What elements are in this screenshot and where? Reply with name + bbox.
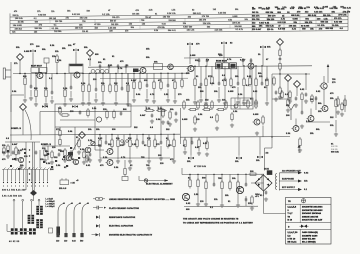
svg-text:2.2k 18k: 2.2k 18k	[215, 29, 223, 31]
svg-text:39k: 39k	[101, 83, 105, 85]
ceramic filter CF1	[216, 63, 237, 69]
svg-text:15k: 15k	[62, 48, 66, 50]
wire rail tie 2	[187, 67, 189, 74]
wire drop resistor R5	[82, 74, 84, 86]
wire drop capacitor C21	[213, 175, 215, 185]
wire R62 chain	[301, 102, 303, 113]
svg-text:470: 470	[125, 29, 128, 32]
svg-text:100 22k: 100 22k	[289, 25, 297, 27]
resistor R20	[266, 77, 268, 88]
resistor Rb1	[139, 80, 141, 91]
wire tie mid2	[160, 106, 162, 134]
svg-text:91: 91	[287, 12, 289, 14]
capacitor Cb2	[242, 59, 245, 63]
svg-text:270: 270	[332, 82, 336, 84]
svg-text:47: 47	[73, 43, 75, 46]
ground under Q15	[86, 156, 90, 160]
svg-text:2SB405 2SC735: 2SB405 2SC735	[302, 215, 318, 218]
resistor R24	[299, 137, 301, 148]
wire drop resistor R19	[255, 66, 257, 79]
capacitor C11	[305, 92, 308, 96]
resistor R71	[64, 148, 66, 158]
ground under capacitor C3	[69, 97, 73, 101]
wire left tie	[10, 95, 12, 112]
wire comb bus	[2, 169, 48, 171]
svg-text:33k 750: 33k 750	[252, 19, 260, 21]
svg-text:0.01: 0.01	[228, 19, 232, 21]
svg-text:120: 120	[64, 241, 67, 243]
chassis ground blob	[30, 190, 37, 196]
svg-text:1.5k: 1.5k	[172, 10, 176, 12]
svg-text:330: 330	[128, 138, 132, 140]
resistor R72	[83, 150, 85, 160]
ground am2-6	[173, 99, 177, 103]
svg-text:1.5k: 1.5k	[233, 111, 238, 113]
svg-text:270: 270	[147, 138, 151, 140]
resistor R49e	[216, 108, 225, 110]
trimmer cap TC1	[30, 50, 36, 53]
svg-text:680 33k: 680 33k	[266, 12, 274, 14]
svg-text:100: 100	[36, 46, 40, 48]
svg-text:6.8: 6.8	[222, 75, 225, 77]
resistor R42	[148, 138, 150, 149]
wire drop am2-4	[160, 73, 162, 82]
svg-text:12k 1.5k: 12k 1.5k	[187, 30, 195, 32]
wire drop capacitor C1	[30, 74, 32, 87]
wire drop resistor R16	[230, 66, 232, 79]
transistor symbol in table header	[301, 199, 305, 203]
ground under resistor R39	[116, 159, 120, 163]
transistor Q10 FM rf	[17, 157, 24, 162]
resistor R18	[249, 76, 251, 87]
wire drop resistor R59	[229, 175, 231, 183]
svg-text:47 220 5.6k: 47 220 5.6k	[194, 166, 206, 168]
wire resistor R9 to gnd	[115, 94, 117, 102]
legend symbol resistance capacitor	[96, 215, 100, 218]
svg-text:120: 120	[56, 241, 59, 243]
junction rail b13	[173, 134, 174, 135]
svg-text:680: 680	[23, 76, 27, 78]
svg-text:82: 82	[230, 43, 232, 45]
svg-text:330 2k2: 330 2k2	[15, 28, 22, 30]
alignment trimmer TC11	[257, 156, 263, 159]
resistor R59	[229, 180, 231, 191]
wire capacitor C4 to gnd	[95, 93, 97, 98]
svg-text:3: 3	[288, 210, 289, 212]
wire drop resistor R10	[127, 74, 129, 86]
svg-text:47: 47	[108, 9, 110, 12]
wire antenna drop	[327, 67, 329, 83]
ground under capacitor C7	[217, 98, 221, 102]
svg-text:18k: 18k	[256, 160, 260, 162]
wire rail tie 3	[251, 66, 253, 106]
oscillator can T1b	[154, 64, 163, 70]
alignment trimmer TC9	[188, 157, 194, 160]
resistor Rc0	[184, 138, 186, 149]
svg-text:560: 560	[202, 178, 206, 180]
wire scm v2	[47, 146, 49, 160]
wire stub if1	[206, 58, 208, 66]
junction rail b3	[102, 73, 103, 74]
svg-text:270: 270	[30, 44, 34, 46]
ground under resistor R57	[204, 202, 208, 206]
resistor R32	[60, 114, 70, 116]
svg-text:560: 560	[80, 241, 83, 243]
junction rail b11	[111, 134, 112, 135]
ground under R53	[205, 152, 209, 156]
svg-text:1.5k: 1.5k	[266, 7, 271, 9]
svg-text:91: 91	[331, 144, 333, 146]
svg-text:0.1: 0.1	[54, 25, 57, 27]
wire capacitor C8 to gnd	[237, 87, 239, 100]
svg-text:1,2,4,7,10: 1,2,4,7,10	[288, 231, 298, 234]
wire drop resistor R40	[129, 135, 131, 140]
wire drop resistor R14	[211, 66, 213, 77]
svg-text:5,6: 5,6	[288, 235, 291, 237]
svg-text:39k: 39k	[146, 57, 150, 59]
ground under capacitor C4	[94, 98, 98, 102]
svg-text:2k2 2.2k: 2k2 2.2k	[343, 8, 352, 10]
coil label box B527a	[31, 68, 39, 73]
ground under resistor R6	[87, 101, 91, 105]
wire drop am2-7	[181, 73, 183, 80]
svg-text:1k2 56k: 1k2 56k	[54, 31, 61, 33]
junction rail 7	[194, 66, 195, 67]
wire coil feed 1	[13, 201, 15, 228]
capacitor Ca2	[117, 65, 120, 69]
ground under R25	[334, 132, 338, 136]
wire output tap 2	[279, 180, 299, 182]
svg-text:33k 270: 33k 270	[305, 22, 313, 24]
svg-text:SD-1 1N60(S): SD-1 1N60(S)	[302, 242, 316, 244]
coil feed terminal 4	[38, 199, 40, 201]
wire TP3 drop	[279, 45, 281, 50]
resistor R40	[129, 138, 131, 149]
wire drop am2-5	[167, 73, 169, 85]
output transformer winding	[275, 173, 279, 191]
svg-text:10k: 10k	[98, 62, 102, 64]
svg-text:8.2k: 8.2k	[81, 83, 86, 85]
svg-text:120 1k: 120 1k	[267, 29, 274, 31]
wire capacitor C7 to gnd	[218, 87, 220, 98]
wire drop capacitor C19	[160, 135, 162, 142]
wire capacitor C2 to gnd	[51, 96, 53, 99]
junction rail b10	[255, 65, 256, 66]
junction rail b4	[121, 73, 122, 74]
svg-text:750: 750	[82, 21, 85, 23]
svg-text:15k: 15k	[129, 24, 132, 26]
svg-text:8 TH 10: 8 TH 10	[288, 238, 296, 240]
wire capacitor C19 to gnd	[160, 146, 162, 156]
wire module mid drop	[74, 127, 76, 150]
ground under capacitor C1	[29, 96, 33, 100]
test point TP3	[277, 39, 284, 46]
wire resistor R3 to gnd	[45, 99, 47, 103]
svg-text:680 5.6k: 680 5.6k	[308, 15, 317, 17]
junction J2	[89, 73, 90, 74]
wire wing drop 2	[238, 137, 240, 156]
svg-text:8.2k 3.3k: 8.2k 3.3k	[167, 13, 175, 15]
wire drop af2-1	[191, 137, 193, 142]
svg-text:330: 330	[70, 111, 74, 113]
svg-text:470: 470	[319, 27, 322, 30]
svg-text:12k: 12k	[259, 76, 263, 78]
resistor R75	[248, 173, 258, 175]
ground mid2	[174, 118, 178, 122]
wire R76 stub	[59, 127, 61, 131]
svg-text:0.02: 0.02	[72, 241, 76, 243]
transistor Q8	[307, 116, 315, 122]
resistor R19	[255, 77, 257, 88]
test point TP2	[87, 50, 94, 57]
wire drop resistor R7	[102, 74, 104, 86]
wire to coil block	[33, 196, 35, 201]
svg-text:27k: 27k	[37, 11, 40, 13]
coil feed terminal 2	[22, 199, 24, 201]
svg-text:6.8: 6.8	[285, 94, 288, 96]
svg-text:33k: 33k	[16, 47, 20, 49]
svg-text:18k: 18k	[187, 161, 191, 163]
transistor Q20	[72, 159, 79, 164]
resistor R13	[205, 77, 207, 88]
svg-text:91: 91	[250, 99, 252, 101]
resistor Rb3	[153, 80, 155, 91]
transistor Q13 AF driver	[106, 149, 114, 155]
svg-text:680: 680	[277, 12, 280, 14]
ground under resistor R12	[193, 100, 197, 104]
svg-text:12k: 12k	[304, 181, 308, 183]
wire resistor R58 to gnd	[221, 191, 223, 204]
wire row in	[7, 230, 11, 232]
ground under R46	[77, 150, 81, 154]
wire tuner stub2	[305, 74, 307, 90]
wire AF supply rail left	[10, 133, 180, 136]
svg-text:560 270: 560 270	[268, 16, 276, 18]
wire TC2 drop	[75, 52, 77, 64]
junction rail b0	[35, 73, 36, 74]
ground scm4	[82, 160, 86, 164]
battery box B1	[60, 180, 69, 185]
dark coupling box	[133, 69, 139, 73]
resistor Rb6	[174, 80, 176, 91]
svg-text:33k: 33k	[188, 16, 191, 18]
wire resistor R17 to gnd	[243, 88, 245, 102]
resistor Rb4	[160, 80, 162, 91]
transformer row links	[18, 230, 29, 232]
svg-text:40 62 85: 40 62 85	[9, 241, 20, 243]
resistor R49b	[225, 100, 227, 110]
resistor R22	[279, 62, 281, 72]
wire drop am2-0	[133, 73, 135, 82]
svg-text:100 5.6k: 100 5.6k	[15, 18, 23, 20]
wire AM second rail	[100, 77, 188, 79]
wire R54 drop	[124, 160, 126, 167]
wire R25 down	[335, 109, 337, 119]
svg-text:6.8: 6.8	[340, 28, 343, 30]
resistor R26	[289, 90, 291, 100]
transistor Q2 IF amp	[73, 72, 81, 78]
svg-text:1S188FM OA90: 1S188FM OA90	[302, 234, 317, 237]
svg-text:8.2k: 8.2k	[57, 60, 62, 62]
trimmer cap TC8	[72, 105, 78, 108]
svg-text:3.3k: 3.3k	[114, 167, 119, 169]
svg-text:≈ 25: ≈ 25	[71, 183, 75, 185]
svg-text:0.005: 0.005	[24, 51, 29, 53]
ground scm5	[88, 158, 92, 162]
svg-text:100: 100	[286, 115, 290, 117]
junction rail 3	[95, 73, 96, 74]
wire output tap 3	[279, 189, 299, 191]
wire TP5 drop	[296, 87, 298, 96]
trimmer cap TC6	[260, 46, 266, 49]
resistor R53b	[194, 115, 196, 125]
svg-text:560 0.01: 560 0.01	[193, 13, 201, 15]
svg-text:470: 470	[100, 164, 104, 167]
ground under capacitor C2	[50, 99, 54, 103]
svg-text:680: 680	[95, 54, 99, 56]
svg-text:0.005: 0.005	[182, 119, 187, 121]
svg-text:27k: 27k	[66, 18, 69, 20]
svg-text:15k: 15k	[183, 23, 186, 25]
svg-text:0.02: 0.02	[162, 23, 166, 25]
wire module feed	[40, 110, 131, 112]
ground under resistor R45	[172, 159, 176, 163]
wire drop resistor R6	[88, 74, 90, 86]
svg-text:+9 V: +9 V	[255, 196, 260, 198]
FM dark bits	[7, 150, 26, 170]
svg-text:3.3k: 3.3k	[210, 83, 215, 85]
resistor R1	[24, 76, 26, 87]
junction rail b6	[167, 73, 168, 74]
ground under R29	[14, 157, 18, 161]
wire output ground rail	[184, 205, 258, 207]
svg-text:B528 B529: B528 B529	[216, 61, 227, 63]
svg-text:8.2k 12k: 8.2k 12k	[314, 12, 323, 14]
capacitor C33	[265, 190, 268, 194]
wire drop resistor R41	[136, 135, 138, 140]
svg-text:LINEAR RESISTOR E12 SERIES 5%: LINEAR RESISTOR E12 SERIES 5% EXCEPT AS …	[109, 198, 175, 201]
svg-text:220: 220	[248, 203, 252, 205]
svg-text:750: 750	[218, 178, 222, 180]
svg-text:15k: 15k	[96, 129, 100, 131]
junction J1	[19, 73, 20, 74]
wire TC4 drop	[189, 46, 191, 64]
wire bridge bottom	[263, 191, 265, 196]
wire drop resistor R37	[99, 135, 101, 140]
svg-text:12k: 12k	[34, 31, 37, 33]
svg-text:2.2k: 2.2k	[149, 10, 153, 12]
svg-text:1k2: 1k2	[95, 28, 98, 30]
wire stub am3	[125, 64, 127, 73]
capacitor C34	[35, 150, 38, 154]
svg-text:10k: 10k	[68, 45, 72, 47]
resistor R51	[231, 112, 233, 122]
wire drop resistor R43	[154, 135, 156, 140]
AM/FM module outline	[55, 104, 131, 127]
resistor R62	[301, 92, 303, 102]
test point TP5	[294, 81, 301, 88]
lever labels	[56, 241, 83, 243]
svg-text:6.8: 6.8	[150, 127, 153, 129]
svg-text:560: 560	[200, 91, 204, 93]
svg-text:100: 100	[50, 169, 54, 171]
svg-text:33k: 33k	[267, 47, 271, 49]
wire TP6 drop	[22, 110, 24, 135]
svg-text:18k: 18k	[259, 26, 263, 28]
IF transformer T2 winding b	[36, 211, 43, 215]
svg-text:560 39k: 560 39k	[35, 28, 42, 30]
wire resistor R45 to gnd	[173, 149, 175, 160]
svg-text:8.2k: 8.2k	[46, 163, 51, 165]
transistor Q12 AF pre	[65, 155, 72, 161]
capacitor C1	[30, 84, 33, 88]
arrowhead output 3	[298, 188, 302, 191]
svg-text:5CM/PL B: 5CM/PL B	[11, 128, 21, 130]
wire output tap 1	[279, 172, 299, 174]
wire TC3 drop	[46, 63, 48, 74]
svg-text:0.1: 0.1	[34, 18, 37, 20]
ground under resistor R1	[23, 98, 27, 102]
transistor Q1 converter	[36, 73, 44, 79]
svg-text:1.5k: 1.5k	[198, 114, 203, 116]
capacitor Cb0	[198, 59, 201, 63]
resistor R66b	[344, 98, 346, 108]
svg-text:2k2: 2k2	[108, 144, 112, 146]
resistor R74	[59, 106, 61, 115]
svg-text:270: 270	[208, 76, 212, 78]
wire af2-2 gnd	[198, 149, 200, 152]
module transistor Q11	[96, 117, 101, 122]
wire drop capacitor C18	[142, 135, 144, 142]
svg-text:15k 6.8: 15k 6.8	[59, 188, 66, 190]
trimmer cap TC7	[42, 105, 48, 108]
capacitor C15	[175, 111, 178, 115]
svg-text:0.02: 0.02	[304, 173, 308, 175]
svg-text:12k: 12k	[291, 7, 295, 9]
junction rail b15	[213, 174, 214, 175]
svg-text:18k 750: 18k 750	[163, 17, 170, 19]
svg-text:470: 470	[136, 9, 139, 12]
svg-text:56k: 56k	[318, 103, 322, 105]
svg-text:RB 10,11: RB 10,11	[288, 242, 297, 244]
svg-text:1.5k: 1.5k	[132, 144, 137, 146]
wire drop af2-2	[198, 137, 200, 140]
svg-text:470: 470	[330, 92, 334, 95]
svg-text:270 5.6k: 270 5.6k	[338, 15, 347, 17]
table1 column divider	[299, 204, 301, 223]
wire drop am2-2	[146, 73, 148, 85]
transistor Q15	[84, 147, 91, 153]
svg-text:0.1 12k: 0.1 12k	[318, 25, 326, 27]
ground under resistor R3	[44, 102, 48, 106]
resistor R10	[127, 83, 129, 94]
svg-text:82: 82	[264, 87, 266, 89]
IF transformer T2 winding a	[36, 206, 43, 210]
svg-text:82: 82	[144, 145, 146, 147]
resistor R54	[124, 167, 126, 177]
wire drop am2-6	[174, 73, 176, 82]
svg-text:33k: 33k	[79, 24, 82, 26]
wire alignment line	[139, 180, 168, 182]
wire resistor R37 to gnd	[99, 149, 101, 159]
transistor Q19 output	[236, 186, 243, 193]
wire drop resistor R13	[205, 66, 207, 79]
wire R25 tail	[335, 120, 337, 132]
transistor Q6 FM osc	[319, 83, 327, 89]
wire capacitor C3 to gnd	[70, 91, 72, 97]
svg-text:2k2: 2k2	[166, 129, 170, 131]
capacitor C30	[79, 110, 82, 114]
